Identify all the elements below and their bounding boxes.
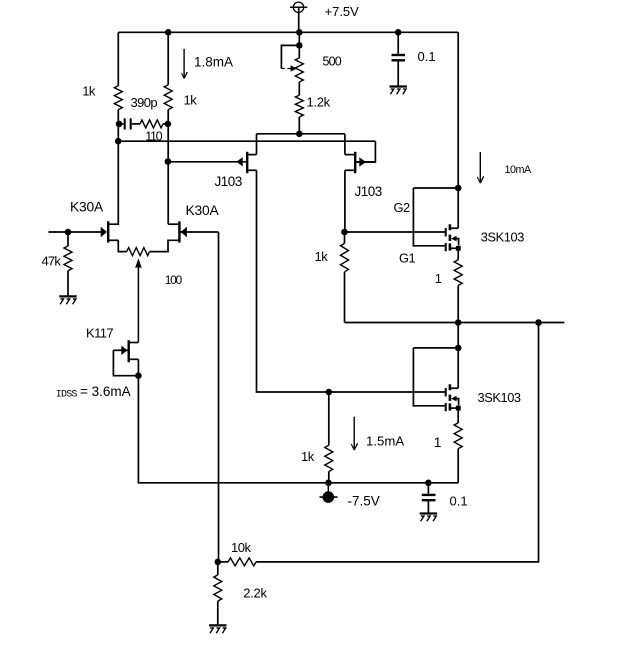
node right-drain/J103-gate <box>165 158 172 165</box>
resistor R 110 <box>140 120 163 128</box>
wire cap lower stub <box>427 483 429 494</box>
node cap-rail <box>425 480 432 487</box>
wire left branch to cap node <box>117 110 119 142</box>
svg-text:10mA: 10mA <box>505 164 533 176</box>
wire 10k left stub <box>218 561 228 563</box>
svg-text:1k: 1k <box>184 93 198 108</box>
wire src-res lower <box>457 408 459 423</box>
svg-text:= 3.6mA: = 3.6mA <box>80 384 131 399</box>
wire drain bus y134 <box>257 133 345 135</box>
label 1k left <box>82 84 96 99</box>
resistor R 10k <box>228 558 256 566</box>
svg-text:47k: 47k <box>42 253 62 268</box>
resistor R 1 lower <box>454 423 462 449</box>
wire supply to trimmer <box>298 32 300 58</box>
wire input stub <box>49 231 102 233</box>
node input/47k <box>65 229 72 236</box>
label 390p <box>131 95 158 110</box>
label 2.2k <box>243 585 267 600</box>
wire right 1k top <box>167 32 169 85</box>
wiper arrow 100 <box>135 258 142 342</box>
svg-text:-7.5V: -7.5V <box>348 494 380 509</box>
label 3SK103 lower <box>478 390 521 405</box>
wire src-res upper <box>457 248 459 259</box>
trimmer wiper arrow <box>281 65 297 71</box>
svg-text:1k: 1k <box>82 84 96 99</box>
label 500 <box>323 55 342 69</box>
wire cap to gnd <box>397 62 399 86</box>
label 1k right <box>184 93 198 108</box>
node 1.2k-drainbus <box>296 131 303 138</box>
wire res to out <box>457 285 459 322</box>
resistor R 1k right <box>164 85 172 110</box>
svg-text:0.1: 0.1 <box>418 49 436 64</box>
transistor Q K30A right <box>179 221 218 242</box>
wire 1.2k to drain bus <box>298 117 300 134</box>
ground top cap <box>390 87 407 95</box>
transistor Q K117 <box>113 340 138 362</box>
wire 47k bottom <box>67 271 69 296</box>
svg-text:10k: 10k <box>231 540 251 555</box>
node fb-10k <box>215 559 222 566</box>
wire 1k mid top <box>344 232 346 243</box>
capacitor C 0.1 top <box>392 55 406 60</box>
wire 1k mid bottom <box>344 272 346 323</box>
wire K117 source <box>137 359 139 375</box>
trimmer loop <box>281 45 299 68</box>
label 1 lower <box>434 435 442 450</box>
wire right K30A drain lead <box>168 223 178 225</box>
svg-text:IDSS: IDSS <box>56 389 78 400</box>
resistor R 2.2k <box>214 575 222 601</box>
node 1k-left/390p <box>116 121 123 128</box>
current arrow 1.5mA <box>351 417 357 450</box>
node K117 gs <box>135 372 142 379</box>
label K30A left <box>70 199 104 214</box>
wire 1k lower top <box>328 392 330 445</box>
wire K117 gate loop <box>113 350 138 375</box>
node J103R-src/1k/G2 <box>341 229 348 236</box>
node rail-cap <box>395 29 402 36</box>
label 1k lower <box>301 449 315 464</box>
node 1k-right/110 <box>165 121 172 128</box>
current arrow 10mA <box>477 152 483 183</box>
wire K30AL source <box>118 240 126 251</box>
label G2 <box>394 200 410 215</box>
wire res to neg rail <box>457 449 459 483</box>
label 1k mid <box>315 249 329 264</box>
svg-text:1.2k: 1.2k <box>307 95 331 110</box>
wire 47k top <box>67 232 69 246</box>
label K117 <box>86 326 113 341</box>
wire output line <box>345 322 565 324</box>
wire cap top branch <box>397 32 399 54</box>
label 110 <box>145 129 162 143</box>
transistor Q J103 right <box>345 152 376 173</box>
wire J103R source drop <box>344 170 346 232</box>
svg-text:J103: J103 <box>355 184 382 199</box>
ground bottom cap <box>420 514 437 522</box>
label 0.1 top <box>418 49 436 64</box>
resistor R 1k mid <box>341 243 349 271</box>
wire rail to lower drain <box>457 323 459 389</box>
wire cap-res link <box>132 123 140 125</box>
label +7.5V <box>325 4 360 19</box>
node rail-1k-right <box>165 29 172 36</box>
node G2line-1klow <box>326 389 333 396</box>
wire res-node link <box>163 123 168 125</box>
label -7.5V <box>348 494 380 509</box>
svg-text:0.1: 0.1 <box>450 494 468 509</box>
capacitor C 0.1 bottom <box>422 495 436 500</box>
label 10mA <box>505 164 533 176</box>
wire top rail <box>118 31 458 33</box>
wire K117 to neg rail <box>138 376 458 483</box>
resistor VR 500 <box>295 58 303 82</box>
wire 1k lower bottom <box>328 472 330 483</box>
wire left branch to K30A drain <box>109 141 118 224</box>
ground 2.2k <box>209 625 226 633</box>
label 1.5mA <box>366 434 404 449</box>
svg-text:390p: 390p <box>131 95 158 110</box>
node out-rail <box>455 319 462 326</box>
resistor R 1.2k <box>295 95 303 117</box>
resistor R 1k lower <box>325 445 333 471</box>
label J103 right <box>355 184 382 199</box>
transistor Q J103 left <box>168 152 257 173</box>
svg-text:K117: K117 <box>86 326 113 341</box>
current arrow 1.8mA <box>182 49 188 79</box>
node 1klow-rail <box>325 480 332 487</box>
label 10k <box>231 540 251 555</box>
wire J103R drain riser <box>344 134 346 155</box>
wire left branch upper <box>117 32 119 85</box>
wire right branch mid <box>167 110 169 225</box>
power terminal +7.5V <box>290 2 307 32</box>
svg-text:J103: J103 <box>215 174 242 189</box>
wire 2.2k top <box>217 562 219 575</box>
svg-text:1k: 1k <box>315 249 329 264</box>
label K30A right <box>186 203 220 218</box>
svg-text:G1: G1 <box>399 251 415 266</box>
svg-text:G2: G2 <box>394 200 410 215</box>
wire G2 bias line <box>345 231 445 233</box>
resistor R 100 <box>127 248 150 256</box>
ground 47k <box>59 296 76 304</box>
svg-text:2.2k: 2.2k <box>243 585 267 600</box>
label J103 left <box>215 174 242 189</box>
transistor Q 3SK103 upper <box>413 188 460 251</box>
node rail-G2loop lower <box>455 345 462 352</box>
wire cap lower gnd stub <box>427 501 429 512</box>
resistor R 1k left <box>114 86 122 110</box>
transistor Q 3SK103 lower <box>413 348 460 411</box>
svg-text:100: 100 <box>165 273 183 287</box>
capacitor C 390p <box>125 118 131 129</box>
svg-text:1: 1 <box>434 435 442 450</box>
label 47k <box>42 253 62 268</box>
label 1 upper <box>435 271 442 286</box>
svg-text:500: 500 <box>323 55 342 69</box>
label 1.2k <box>307 95 331 110</box>
wire J103L source run <box>257 170 445 392</box>
wire J103R gate drop <box>357 141 376 162</box>
svg-text:3SK103: 3SK103 <box>478 390 521 405</box>
resistor R 1 upper <box>454 260 462 286</box>
svg-text:1.5mA: 1.5mA <box>366 434 404 449</box>
label IDSS <box>56 389 78 400</box>
wire comp line y141 <box>118 140 375 142</box>
wire right rail <box>457 32 459 228</box>
svg-text:1.8mA: 1.8mA <box>194 55 233 70</box>
node trimmer top <box>296 42 303 49</box>
label 3SK103 upper <box>481 230 524 245</box>
wire feedback drop <box>218 232 220 562</box>
node out-fb <box>535 319 542 326</box>
node left-drain/comp-line <box>115 138 122 145</box>
node supply-rail <box>296 29 303 36</box>
terminal -7.5V <box>320 483 338 503</box>
svg-text:1: 1 <box>435 271 442 286</box>
transistor Q K30A left <box>101 221 119 242</box>
wire 2.2k bottom <box>217 601 219 625</box>
wire J103L drain riser <box>256 134 258 155</box>
svg-text:+7.5V: +7.5V <box>325 4 360 19</box>
svg-text:3SK103: 3SK103 <box>481 230 524 245</box>
wire 10k to fb corner <box>256 323 538 562</box>
wire cap left stub <box>119 123 124 125</box>
wire trimmer to 1.2k <box>298 82 300 95</box>
wire R100 to K30AR source <box>150 240 179 251</box>
label G1 <box>399 251 415 266</box>
label 100 <box>165 273 183 287</box>
label 1.8mA <box>194 55 233 70</box>
resistor R 47k <box>64 246 72 271</box>
label 0.1 bottom <box>450 494 468 509</box>
node rail-G2loop upper <box>455 185 462 192</box>
svg-text:K30A: K30A <box>70 199 104 214</box>
svg-text:1k: 1k <box>301 449 315 464</box>
label =3.6mA <box>80 384 131 399</box>
svg-text:K30A: K30A <box>186 203 220 218</box>
